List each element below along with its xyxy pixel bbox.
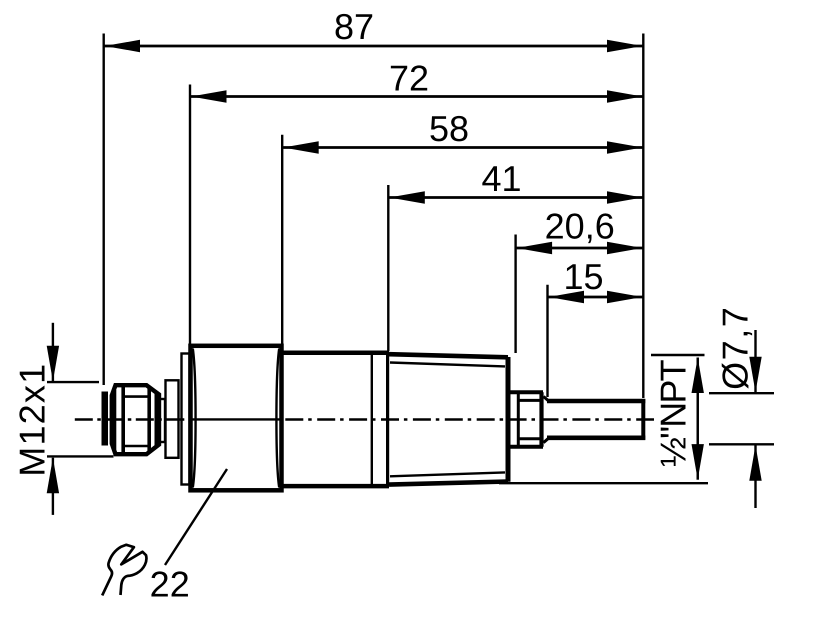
- connector flange: [166, 380, 179, 458]
- collar left vertical: [517, 392, 520, 447]
- svg-text:72: 72: [389, 58, 429, 99]
- NPT thread outer top edge (tapered): [389, 354, 508, 357]
- dimension 72: [191, 95, 643, 97]
- dimension 20,6: [517, 247, 643, 249]
- M12 top extension line: [47, 381, 99, 383]
- tip rod top edge: [547, 399, 645, 404]
- leader line to wrench size: [165, 469, 227, 565]
- centerline right part: [285, 418, 654, 420]
- diameter 7,7 bottom extension line: [709, 443, 774, 445]
- wrench icon: [102, 545, 146, 596]
- diameter 7,7 top arrow: [754, 330, 756, 392]
- shared right extension line: [642, 34, 644, 399]
- NPT bottom extension line (right): [499, 482, 708, 484]
- connector neck: [158, 399, 165, 442]
- extension line left of 72: [189, 85, 191, 353]
- extension line left of 15: [546, 285, 548, 397]
- mid cylinder bottom edge: [282, 484, 390, 489]
- M12 connector end cap: [102, 392, 108, 445]
- chamfer collar to tip top: [544, 397, 549, 401]
- svg-text:½"NPT: ½"NPT: [652, 359, 693, 467]
- extension line left of 20,6: [514, 235, 516, 354]
- collar bottom outer edge: [507, 445, 543, 449]
- M12 bottom extension line: [47, 455, 114, 457]
- mid cylinder top edge: [282, 350, 390, 355]
- ring washer: [182, 354, 190, 485]
- NPT top extension line (right): [651, 354, 705, 356]
- M12 dimension vertical arrow line, bottom part: [52, 458, 54, 515]
- separator line thick: [386, 352, 389, 485]
- svg-text:20,6: 20,6: [545, 206, 615, 247]
- NPT thread outer bottom edge (tapered): [389, 482, 508, 485]
- svg-text:41: 41: [481, 158, 521, 199]
- dimension 58: [283, 146, 642, 148]
- hex right chamfer curve: [276, 349, 279, 488]
- tip rod bottom edge: [547, 435, 645, 440]
- thread root lines: [123, 395, 149, 398]
- dimension 15: [549, 296, 643, 298]
- separator line thin: [371, 352, 373, 485]
- NPT size dimension double arrow: [697, 358, 699, 480]
- chamfer collar to tip bottom: [544, 438, 549, 442]
- diameter 7,7 bottom arrow: [754, 445, 756, 508]
- svg-text:15: 15: [563, 256, 603, 297]
- hex middle edge line: [191, 418, 282, 420]
- collar inner top line: [518, 399, 541, 402]
- M12 connector thread body (chamfered): [112, 385, 159, 454]
- hex nut body: [191, 346, 282, 491]
- extension line left of 87: [102, 34, 104, 386]
- extension line left of 58: [281, 135, 283, 345]
- collar right vertical: [539, 392, 543, 447]
- hex left chamfer curve: [193, 349, 196, 488]
- collar inner bottom line: [518, 437, 541, 440]
- extension line left of 41: [387, 185, 389, 351]
- M12 dimension vertical arrow line, top part: [52, 323, 54, 382]
- NPT end face: [506, 357, 511, 482]
- collar top outer edge: [507, 390, 543, 394]
- NPT thread root top line: [390, 363, 505, 367]
- svg-text:58: 58: [429, 108, 469, 149]
- dimension 41: [389, 196, 642, 198]
- centerline (dash-dot axis): [75, 418, 190, 420]
- thread relief vertical lines: [113, 390, 116, 450]
- svg-text:Ø7,7: Ø7,7: [714, 306, 755, 390]
- diameter 7,7 top extension line: [709, 392, 774, 394]
- svg-text:M12x1: M12x1: [12, 363, 53, 477]
- svg-text:22: 22: [150, 564, 190, 605]
- tip end face: [641, 399, 645, 440]
- svg-text:87: 87: [334, 6, 374, 47]
- dimension 87: dimension line with outward arrows: [105, 45, 643, 47]
- NPT thread root bottom line: [390, 472, 505, 476]
